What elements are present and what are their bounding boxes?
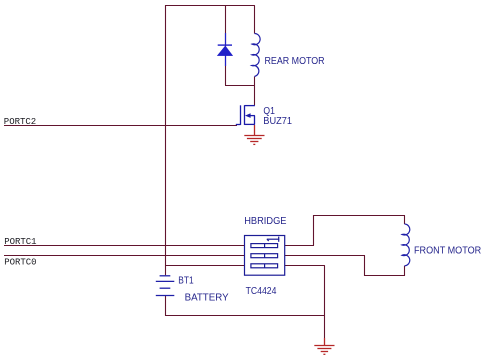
svg-text:PORTC2: PORTC2 xyxy=(4,117,36,127)
svg-text:FRONT MOTOR: FRONT MOTOR xyxy=(414,246,481,257)
svg-text:TC4424: TC4424 xyxy=(246,286,277,297)
svg-text:BUZ71: BUZ71 xyxy=(263,116,292,127)
svg-text:PORTC0: PORTC0 xyxy=(4,258,36,268)
svg-text:BT1: BT1 xyxy=(178,276,194,287)
svg-text:REAR MOTOR: REAR MOTOR xyxy=(265,56,325,67)
svg-text:BATTERY: BATTERY xyxy=(185,292,229,303)
svg-text:HBRIDGE: HBRIDGE xyxy=(244,216,287,227)
svg-text:PORTC1: PORTC1 xyxy=(4,237,36,247)
